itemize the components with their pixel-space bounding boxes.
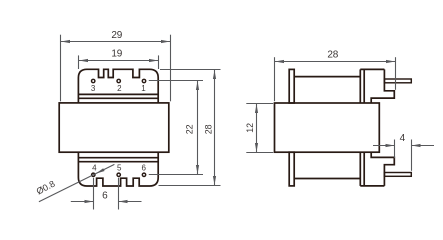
svg-text:12: 12 (245, 123, 255, 133)
svg-text:2: 2 (117, 84, 122, 93)
dimension 22 (pin row spacing) with leaders from pin 1 and pin 6 (149, 81, 203, 175)
left view: top flange outline with notches (78, 69, 158, 103)
left view: bottom lamination lines (78, 158, 158, 162)
right view: bottom-right flange bar and terminal block (360, 152, 394, 186)
right view: bottom pin (384, 173, 411, 177)
pin 2 (117, 79, 120, 82)
right view: top-right flange bar and terminal block (360, 69, 394, 103)
svg-text:28: 28 (203, 124, 213, 134)
right view: top pin (384, 79, 411, 83)
svg-text:1: 1 (141, 84, 146, 93)
svg-text:6: 6 (102, 191, 108, 202)
svg-text:5: 5 (117, 163, 122, 172)
dimension 29 (left view width) (61, 30, 171, 101)
right view: bobbin tube top edge (294, 76, 360, 78)
left view: main body rectangle (59, 103, 169, 152)
left view: top lamination lines (78, 94, 158, 98)
right view: core rectangle (275, 103, 380, 152)
dimension 28 (right view length) (275, 50, 396, 102)
dimension 19 (top flange width) (79, 49, 159, 69)
right view: bobbin tube bottom edge (294, 178, 360, 180)
right view: top-left bobbin flange bar (289, 69, 294, 103)
pin 3 (92, 79, 95, 82)
svg-text:4: 4 (400, 133, 406, 144)
dimension 6 (pin pitch) (71, 178, 142, 210)
svg-text:6: 6 (141, 163, 146, 172)
left view: bottom flange outline with slots (78, 152, 158, 186)
pin 1 (142, 79, 145, 82)
pin 4 (92, 173, 95, 176)
svg-text:29: 29 (111, 30, 122, 41)
leader and label for pin diameter 0.8 (35, 164, 115, 201)
dimension 12 (core height) (245, 104, 273, 153)
svg-text:3: 3 (91, 84, 96, 93)
pin 6 (142, 173, 145, 176)
svg-text:22: 22 (185, 124, 195, 134)
right view: bottom-left bobbin flange bar (289, 152, 294, 186)
svg-text:4: 4 (92, 163, 97, 172)
svg-text:28: 28 (327, 50, 338, 61)
dimension 28 (left view total height) (159, 70, 221, 186)
svg-text:19: 19 (111, 49, 122, 60)
dimension 4 (pin length) (373, 133, 434, 171)
pin 5 (117, 173, 120, 176)
